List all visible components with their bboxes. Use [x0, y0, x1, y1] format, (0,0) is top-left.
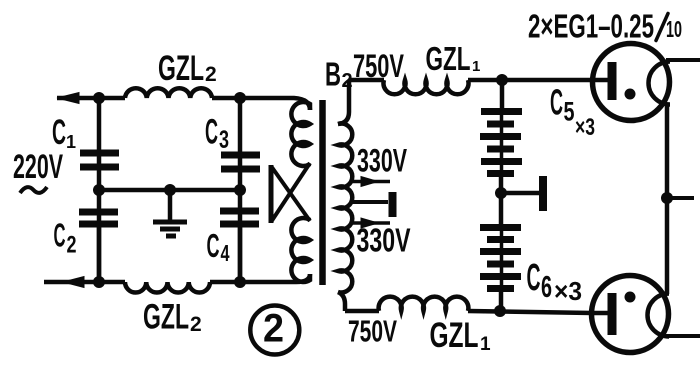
svg-text:330V: 330V [357, 143, 407, 179]
svg-text:2: 2 [67, 232, 77, 259]
svg-text:B: B [325, 56, 341, 93]
svg-text:1: 1 [480, 334, 491, 355]
svg-text:1: 1 [66, 132, 76, 152]
svg-text:750V: 750V [353, 48, 404, 84]
svg-text:C: C [52, 113, 66, 152]
svg-text:GZL: GZL [143, 298, 189, 337]
svg-text:3: 3 [219, 126, 229, 154]
svg-text:×3: ×3 [575, 114, 595, 141]
svg-text:C: C [54, 217, 66, 254]
svg-text:5: 5 [564, 97, 575, 127]
svg-text:2×EG1–0.25: 2×EG1–0.25 [528, 8, 654, 45]
svg-text:C: C [207, 227, 220, 264]
svg-text:2: 2 [205, 63, 217, 86]
svg-text:C: C [527, 257, 541, 299]
svg-text:10: 10 [666, 16, 682, 42]
svg-text:C: C [550, 82, 563, 123]
svg-text:GZL: GZL [158, 49, 204, 88]
svg-text:GZL: GZL [430, 316, 479, 355]
svg-text:220V: 220V [13, 148, 63, 186]
svg-text:2: 2 [342, 70, 353, 92]
svg-text:4: 4 [221, 240, 230, 266]
svg-text:2: 2 [263, 307, 284, 351]
svg-text:6: 6 [541, 269, 552, 304]
svg-text:×3: ×3 [554, 276, 582, 306]
svg-text:C: C [205, 113, 218, 152]
svg-text:330V: 330V [357, 222, 411, 259]
svg-text:2: 2 [190, 313, 202, 336]
svg-text:750V: 750V [348, 315, 397, 349]
svg-text:GZL: GZL [426, 40, 471, 77]
svg-text:1: 1 [472, 58, 480, 75]
